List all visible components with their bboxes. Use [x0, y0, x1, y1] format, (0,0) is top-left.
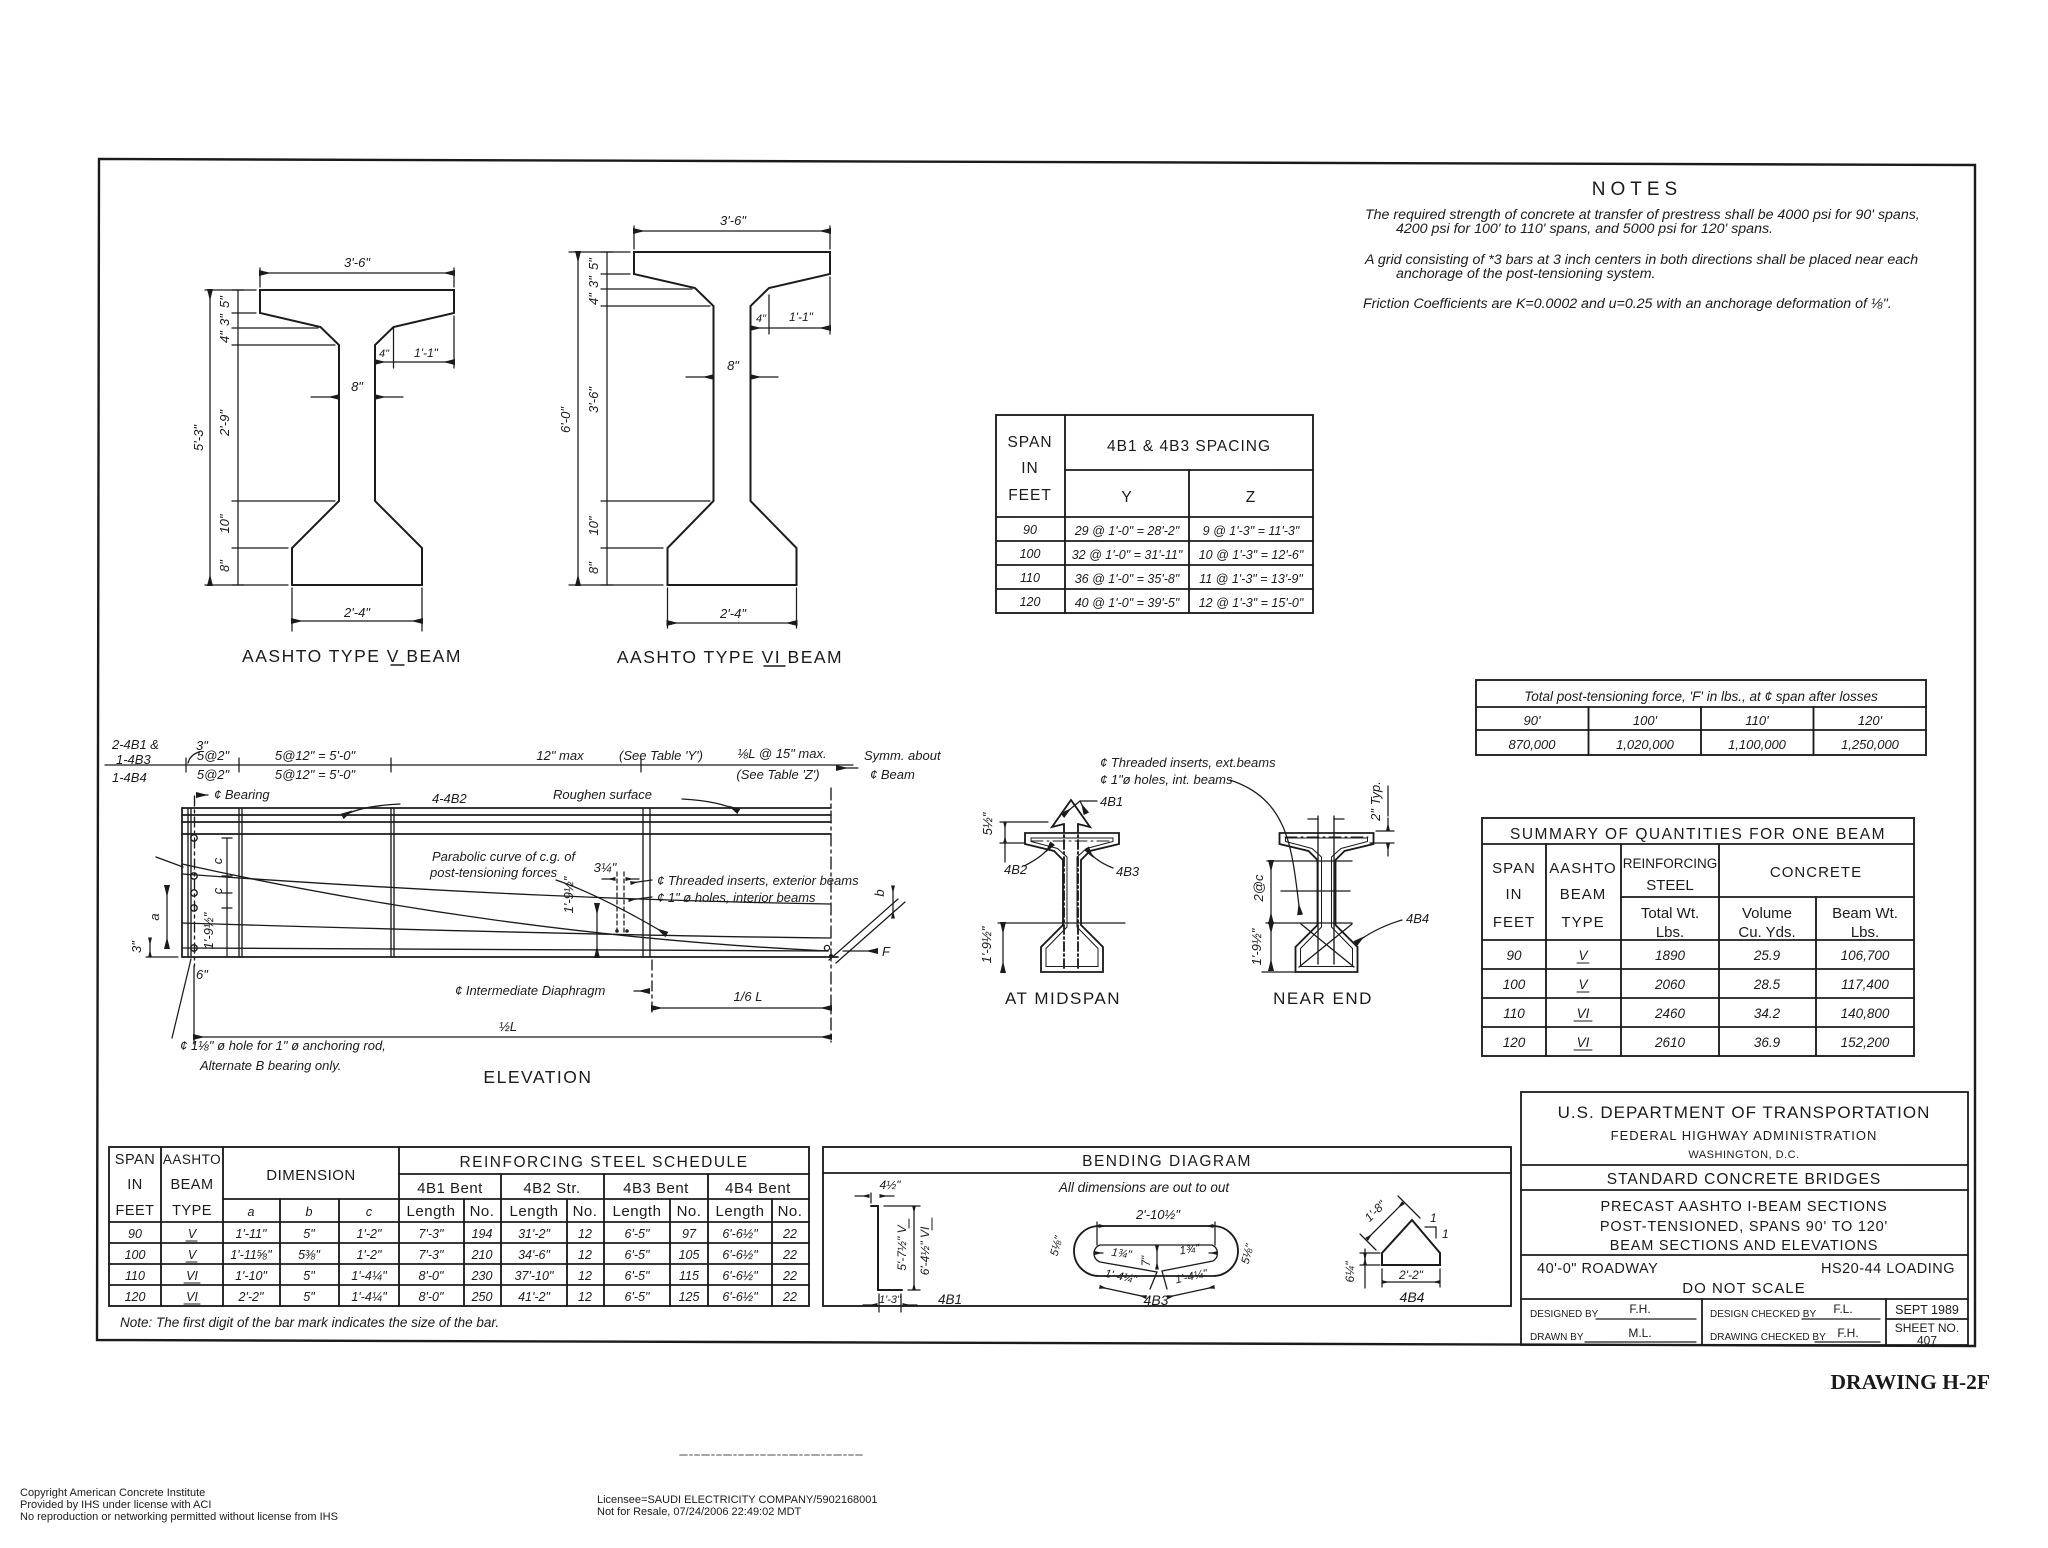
svg-text:Lbs.: Lbs. [1656, 924, 1684, 941]
svg-text:¢ 1⅛" ø hole for 1" ø anchorin: ¢ 1⅛" ø hole for 1" ø anchoring rod, [180, 1038, 386, 1053]
spacing table frame [996, 415, 1313, 613]
svg-text:152,200: 152,200 [1841, 1035, 1890, 1050]
svg-text:4-4B2: 4-4B2 [432, 791, 467, 806]
svg-text:REINFORCING: REINFORCING [1623, 856, 1718, 871]
svg-text:DIMENSION: DIMENSION [266, 1167, 356, 1184]
svg-text:Length: Length [716, 1203, 765, 1220]
svg-text:1'-10": 1'-10" [235, 1269, 267, 1283]
svg-text:4": 4" [379, 348, 390, 360]
svg-text:100: 100 [1020, 547, 1041, 561]
svg-text:DRAWING H-2F: DRAWING H-2F [1831, 1370, 1990, 1394]
svg-text:TYPE: TYPE [1561, 914, 1604, 931]
summary of quantities table frame [1482, 818, 1914, 1056]
svg-text:2460: 2460 [1654, 1006, 1686, 1021]
svg-text:4B1: 4B1 [1100, 794, 1123, 809]
svg-text:31'-2": 31'-2" [518, 1227, 550, 1241]
svg-text:1'-11": 1'-11" [236, 1227, 267, 1241]
svg-text:6'-5": 6'-5" [625, 1248, 650, 1262]
stirrup pair 5'-0 [390, 808, 392, 957]
svg-text:IN: IN [1506, 886, 1523, 903]
scan artifact dashed line [680, 1454, 862, 1456]
intermediate diaphragm arrow [634, 990, 649, 992]
svg-text:Z: Z [1246, 489, 1256, 506]
near-end level lines [1267, 860, 1352, 862]
svg-text:Length: Length [613, 1203, 662, 1220]
svg-text:DESIGN CHECKED BY: DESIGN CHECKED BY [1710, 1309, 1816, 1320]
svg-text:5'-3": 5'-3" [191, 424, 206, 451]
threaded insert detail [616, 872, 618, 934]
svg-text:12: 12 [578, 1290, 592, 1304]
anchoring rod leader [172, 959, 191, 1038]
notes heading [1592, 179, 1682, 200]
svg-text:Not for Resale, 07/24/2006 22:: Not for Resale, 07/24/2006 22:49:02 MDT [597, 1506, 802, 1518]
svg-text:3'-6": 3'-6" [720, 213, 747, 228]
svg-text:DESIGNED BY: DESIGNED BY [1530, 1309, 1599, 1320]
Type V top dimension 3'-6" [259, 268, 261, 287]
svg-text:SEPT 1989: SEPT 1989 [1895, 1303, 1959, 1317]
svg-text:1'-9½": 1'-9½" [1249, 927, 1264, 965]
svg-text:6'-6½": 6'-6½" [722, 1227, 758, 1241]
4B4 cross bars [1299, 924, 1352, 967]
svg-text:3": 3" [129, 940, 144, 953]
svg-text:1-4B3: 1-4B3 [116, 752, 151, 767]
svg-text:No.: No. [573, 1203, 598, 1220]
svg-text:SUMMARY OF QUANTITIES FOR: SUMMARY OF QUANTITIES FOR ONE BEAM [1510, 826, 1886, 843]
svg-text:IN: IN [1021, 460, 1039, 477]
svg-text:3": 3" [217, 313, 232, 326]
4B4 dimensions [1367, 1203, 1403, 1239]
svg-text:7'-3": 7'-3" [419, 1248, 444, 1262]
svg-text:4B3: 4B3 [1144, 1292, 1169, 1308]
svg-text:Alternate B bearing only.: Alternate B bearing only. [199, 1058, 341, 1073]
svg-text:2'-4": 2'-4" [343, 605, 371, 620]
svg-text:250: 250 [471, 1290, 493, 1304]
symmetry centerline about beam [830, 788, 832, 1042]
svg-text:4B3 Bent: 4B3 Bent [623, 1180, 689, 1197]
reinforcing steel schedule frame [109, 1147, 809, 1306]
svg-text:210: 210 [471, 1248, 493, 1262]
svg-text:¢ Bearing: ¢ Bearing [214, 787, 270, 802]
svg-text:1,100,000: 1,100,000 [1728, 737, 1787, 752]
3" leader [188, 752, 199, 763]
at-midspan inner bar line [1031, 838, 1113, 967]
svg-text:NOTES: NOTES [1592, 179, 1682, 200]
svg-text:5@12" = 5'-0": 5@12" = 5'-0" [275, 767, 357, 782]
bending diagram heading [1082, 1153, 1252, 1170]
svg-text:4200 psi for 100' to 110' span: 4200 psi for 100' to 110' spans, and 500… [1396, 221, 1773, 237]
svg-text:1'-9½": 1'-9½" [979, 925, 994, 963]
svg-text:2'-4": 2'-4" [719, 606, 747, 621]
svg-text:22: 22 [782, 1248, 797, 1262]
Type VI 4" / 1'-1" flange dimension [768, 295, 770, 334]
svg-text:41'-2": 41'-2" [518, 1290, 550, 1304]
svg-text:Volume: Volume [1742, 905, 1792, 922]
schedule note [120, 1315, 499, 1330]
near-end inner bar line [1286, 838, 1368, 967]
svg-text:AASHTO: AASHTO [1549, 860, 1616, 877]
svg-text:5⅛": 5⅛" [1049, 1234, 1066, 1257]
svg-text:4B1 & 4B3 SPACING: 4B1 & 4B3 SPACING [1107, 438, 1271, 455]
leaders for threaded inserts text [631, 880, 652, 883]
svg-text:5⅜": 5⅜" [298, 1248, 320, 1262]
svg-text:12: 12 [578, 1248, 592, 1262]
svg-text:No.: No. [470, 1203, 495, 1220]
svg-text:125: 125 [679, 1290, 700, 1304]
svg-text:Y: Y [1121, 489, 1132, 506]
roughen surface leader [682, 799, 738, 811]
svg-text:V: V [188, 1248, 198, 1262]
svg-text:4": 4" [217, 330, 232, 343]
svg-text:F.L.: F.L. [1833, 1302, 1852, 1316]
svg-text:1'-4¼": 1'-4¼" [1174, 1268, 1209, 1287]
svg-text:4B4 Bent: 4B4 Bent [725, 1180, 791, 1197]
svg-text:40 @ 1'-0" = 39'-5": 40 @ 1'-0" = 39'-5" [1075, 596, 1180, 610]
Type VI web 8" dimension arrows [686, 376, 714, 378]
svg-text:All dimensions are out to out: All dimensions are out to out [1058, 1180, 1231, 1195]
svg-text:1'-9½": 1'-9½" [561, 875, 576, 913]
svg-text:U.S. DEPARTMENT OF TRANSPORT: U.S. DEPARTMENT OF TRANSPORTATION [1558, 1103, 1931, 1122]
svg-text:12: 12 [578, 1227, 592, 1241]
top dimension string line [105, 764, 853, 766]
svg-text:CONCRETE: CONCRETE [1770, 864, 1862, 881]
svg-text:8": 8" [586, 561, 601, 574]
svg-text:5": 5" [586, 257, 601, 270]
near-end hole centerlines [1317, 816, 1319, 964]
svg-text:ELEVATION: ELEVATION [483, 1067, 592, 1087]
svg-text:32 @ 1'-0" = 31'-11": 32 @ 1'-0" = 31'-11" [1072, 548, 1183, 562]
svg-text:6'-5": 6'-5" [625, 1269, 650, 1283]
svg-text:4B1 Bent: 4B1 Bent [417, 1180, 483, 1197]
svg-text:1: 1 [1442, 1227, 1449, 1241]
svg-text:Length: Length [407, 1203, 456, 1220]
svg-text:IN: IN [127, 1177, 143, 1193]
svg-text:10": 10" [217, 513, 232, 533]
svg-text:AT MIDSPAN: AT MIDSPAN [1005, 989, 1121, 1008]
svg-text:6'-6½": 6'-6½" [722, 1269, 758, 1283]
svg-text:22: 22 [782, 1269, 797, 1283]
svg-text:F: F [882, 944, 891, 959]
Type V bottom dimension 2'-4" [291, 588, 293, 631]
svg-text:post-tensioning forces: post-tensioning forces [429, 865, 558, 880]
svg-text:6'-0": 6'-0" [558, 406, 573, 433]
elevation tendon lines [182, 874, 830, 904]
anchorage circles [191, 835, 197, 841]
bearing centerline [194, 796, 196, 966]
Type V dimension chain line [237, 290, 239, 585]
stirrup pair at diaphragm [642, 808, 644, 957]
4B1 label leader split arrows [1080, 800, 1097, 802]
svg-text:Symm. about: Symm. about [864, 748, 942, 763]
svg-text:c: c [366, 1205, 373, 1219]
svg-text:DRAWN BY: DRAWN BY [1530, 1332, 1584, 1343]
svg-text:1'-4¼": 1'-4¼" [351, 1290, 387, 1304]
svg-text:2'-9": 2'-9" [217, 409, 232, 437]
underlines for schedule roman numerals [186, 1240, 197, 1242]
svg-text:1'-1": 1'-1" [414, 346, 439, 360]
svg-text:90: 90 [128, 1227, 142, 1241]
symm about beam arrow [837, 767, 858, 769]
svg-text:1'-4¼": 1'-4¼" [351, 1269, 387, 1283]
svg-text:NEAR END: NEAR END [1273, 989, 1373, 1008]
svg-text:120: 120 [1020, 595, 1041, 609]
svg-text:No reproduction or networking: No reproduction or networking permitted … [20, 1511, 338, 1523]
svg-text:1¾": 1¾" [1179, 1243, 1201, 1258]
svg-text:140,800: 140,800 [1841, 1006, 1890, 1021]
footer copyright text [20, 1487, 878, 1523]
svg-text:7'-3": 7'-3" [419, 1227, 444, 1241]
svg-text:9 @ 1'-3" = 11'-3": 9 @ 1'-3" = 11'-3" [1203, 524, 1300, 538]
svg-text:1/6 L: 1/6 L [734, 989, 763, 1004]
svg-text:90': 90' [1524, 713, 1541, 728]
svg-text:4B4: 4B4 [1400, 1289, 1425, 1305]
svg-text:10 @ 1'-3" = 12'-6": 10 @ 1'-3" = 12'-6" [1199, 548, 1304, 562]
2" typ dimension [1387, 818, 1389, 830]
svg-text:No.: No. [778, 1203, 803, 1220]
svg-text:¢ Threaded inserts, exterior b: ¢ Threaded inserts, exterior beams [657, 873, 859, 888]
svg-text:6¼": 6¼" [1343, 1261, 1357, 1283]
svg-text:115: 115 [679, 1269, 699, 1283]
svg-text:¢ Intermediate Diaphragm: ¢ Intermediate Diaphragm [455, 983, 605, 998]
svg-text:1: 1 [1430, 1211, 1437, 1225]
svg-text:4½": 4½" [880, 1178, 902, 1192]
svg-text:FEDERAL HIGHWAY ADMINISTRATI: FEDERAL HIGHWAY ADMINISTRATION [1611, 1128, 1878, 1143]
svg-text:100: 100 [1503, 977, 1526, 992]
elevation title [483, 1067, 592, 1087]
svg-text:SPAN: SPAN [1007, 434, 1052, 451]
svg-text:97: 97 [682, 1227, 697, 1241]
signature lines [1596, 1318, 1696, 1320]
svg-text:2'-2": 2'-2" [1398, 1268, 1424, 1282]
svg-text:VI: VI [186, 1269, 198, 1283]
4B3 inner bar loop [1094, 1245, 1217, 1272]
bar 4B3 bent shape outer capsule [1074, 1226, 1238, 1276]
elevation beam outline [182, 807, 831, 809]
parabolic curve of c.g. [182, 864, 828, 951]
svg-text:FEET: FEET [1008, 487, 1052, 504]
svg-text:No.: No. [677, 1203, 702, 1220]
svg-text:PRECAST AASHTO I-BEAM SECTI: PRECAST AASHTO I-BEAM SECTIONS [1601, 1199, 1888, 1215]
c spacing dimension chain [226, 838, 228, 957]
svg-text:FEET: FEET [1493, 914, 1535, 931]
svg-text:5": 5" [303, 1227, 315, 1241]
svg-text:Provided by IHS under license: Provided by IHS under license with ACI [20, 1499, 211, 1511]
near-end section outline [1280, 833, 1374, 972]
svg-text:6'-5": 6'-5" [625, 1290, 650, 1304]
svg-text:Copyright American Concrete In: Copyright American Concrete Institute [20, 1487, 205, 1499]
svg-text:5@12" = 5'-0": 5@12" = 5'-0" [275, 748, 357, 763]
midspan 5 1/2 dim [1000, 821, 1048, 823]
Type V overall height dimension 5'-3" [205, 289, 256, 291]
svg-text:2060: 2060 [1654, 977, 1686, 992]
svg-text:Total Wt.: Total Wt. [1641, 905, 1699, 922]
svg-text:34'-6": 34'-6" [518, 1248, 550, 1262]
svg-text:29 @ 1'-0" = 28'-2": 29 @ 1'-0" = 28'-2" [1074, 524, 1180, 538]
svg-text:VI: VI [186, 1290, 198, 1304]
svg-text:HS20-44 LOADING: HS20-44 LOADING [1821, 1261, 1955, 1277]
svg-text:Roughen surface: Roughen surface [553, 787, 652, 802]
svg-text:8": 8" [727, 358, 740, 373]
svg-text:SPAN: SPAN [1492, 860, 1536, 877]
bending diagram frame [823, 1147, 1511, 1306]
svg-text:BEAM: BEAM [170, 1177, 213, 1193]
title block frame [1521, 1092, 1968, 1345]
svg-text:VI: VI [1577, 1035, 1590, 1050]
svg-text:106,700: 106,700 [1841, 948, 1890, 963]
svg-text:870,000: 870,000 [1509, 737, 1557, 752]
svg-text:120: 120 [1503, 1035, 1526, 1050]
svg-text:1,020,000: 1,020,000 [1616, 737, 1675, 752]
svg-text:12 @ 1'-3" = 15'-0": 12 @ 1'-3" = 15'-0" [1199, 596, 1304, 610]
underlines for 4B1 roman numerals [908, 1219, 910, 1228]
svg-text:¢ Beam: ¢ Beam [870, 767, 915, 782]
svg-text:F.H.: F.H. [1837, 1326, 1858, 1340]
svg-text:AASHTO TYPE V BEAM: AASHTO TYPE V BEAM [242, 646, 462, 666]
4B2 label leader [1024, 844, 1052, 866]
parabolic curve leader [556, 880, 666, 934]
svg-text:90: 90 [1506, 948, 1522, 963]
sheet border frame [97, 159, 1975, 1346]
svg-text:2'-10½": 2'-10½" [1135, 1207, 1181, 1222]
1/6 L dimension [652, 1007, 831, 1009]
svg-text:1890: 1890 [1655, 948, 1686, 963]
svg-text:VI: VI [1577, 1006, 1590, 1021]
svg-text:194: 194 [472, 1227, 493, 1241]
svg-text:2" Typ.: 2" Typ. [1368, 781, 1383, 822]
svg-text:V: V [1578, 977, 1589, 992]
svg-text:STANDARD CONCRETE BRIDGES: STANDARD CONCRETE BRIDGES [1607, 1171, 1881, 1188]
svg-text:⅛L @ 15" max.: ⅛L @ 15" max. [737, 746, 826, 761]
svg-text:5@2": 5@2" [197, 767, 231, 782]
svg-text:28.5: 28.5 [1753, 977, 1781, 992]
svg-text:1'-9½": 1'-9½" [201, 911, 216, 949]
svg-text:5'-7½" V: 5'-7½" V [895, 1224, 909, 1270]
svg-text:BEAM: BEAM [1560, 886, 1607, 903]
svg-text:b: b [872, 889, 887, 896]
svg-text:6'-6½": 6'-6½" [722, 1248, 758, 1262]
svg-text:1'-2": 1'-2" [357, 1227, 382, 1241]
svg-text:Length: Length [510, 1203, 559, 1220]
Type VI bottom dimension 2'-4" [667, 588, 669, 628]
svg-text:Note: The first digit of the: Note: The first digit of the bar mark in… [120, 1315, 499, 1330]
svg-text:110: 110 [1503, 1006, 1525, 1021]
intermediate diaphragm centerline [651, 960, 653, 1014]
midspan 1'-9 1/2 level line [998, 922, 1125, 924]
svg-text:5@2": 5@2" [197, 748, 231, 763]
4B3 dimensions [1096, 1222, 1098, 1245]
svg-text:STEEL: STEEL [1646, 877, 1694, 894]
svg-text:Licensee=SAUDI ELECTRICITY COM: Licensee=SAUDI ELECTRICITY COMPANY/59021… [597, 1494, 878, 1506]
svg-text:Lbs.: Lbs. [1851, 924, 1879, 941]
svg-text:120: 120 [125, 1290, 146, 1304]
svg-text:5": 5" [303, 1269, 315, 1283]
svg-text:1'-2": 1'-2" [357, 1248, 382, 1262]
svg-text:8'-0": 8'-0" [419, 1290, 444, 1304]
3 inch end dimension [149, 938, 151, 957]
post-tensioning force table frame [1476, 680, 1926, 755]
svg-text:c: c [210, 857, 225, 864]
svg-text:90: 90 [1023, 523, 1037, 537]
underlines for roman numerals [1577, 962, 1589, 964]
svg-text:11 @ 1'-3" = 13'-9": 11 @ 1'-3" = 13'-9" [1199, 572, 1303, 586]
svg-text:¢ 1"ø holes, int. beams: ¢ 1"ø holes, int. beams [1100, 772, 1233, 787]
F force arrow and end diagonals [829, 899, 898, 960]
svg-text:22: 22 [782, 1227, 797, 1241]
4B1 dimensions [870, 1193, 872, 1203]
bar 4B1 bent shape [871, 1205, 878, 1207]
near end title [1273, 989, 1373, 1008]
svg-text:110': 110' [1745, 713, 1769, 728]
near-end 1'-9 1/2 dimension [1270, 923, 1272, 970]
svg-text:1,250,000: 1,250,000 [1841, 737, 1900, 752]
svg-text:BEAM SECTIONS AND ELEVATION: BEAM SECTIONS AND ELEVATIONS [1610, 1238, 1878, 1254]
svg-text:TYPE: TYPE [172, 1203, 212, 1219]
svg-text:1'-11⅝": 1'-11⅝" [230, 1248, 272, 1262]
bar 4B4 bent shape [1382, 1220, 1440, 1265]
svg-text:DRAWING CHECKED BY: DRAWING CHECKED BY [1710, 1332, 1826, 1343]
4B1 bar arrow in midspan section [1063, 824, 1065, 968]
Type V 4" / 1'-1" flange dimension [393, 327, 395, 368]
svg-text:1'-3": 1'-3" [879, 1294, 902, 1306]
svg-text:22: 22 [782, 1290, 797, 1304]
4-4B2 leader [343, 804, 400, 816]
at-midspan section outline [1025, 833, 1119, 972]
svg-text:3¼": 3¼" [594, 860, 618, 875]
svg-text:6": 6" [196, 967, 209, 982]
svg-text:2-4B1 &: 2-4B1 & [111, 737, 159, 752]
svg-text:117,400: 117,400 [1841, 977, 1889, 992]
Type V title [242, 646, 462, 666]
svg-text:6'-6½": 6'-6½" [722, 1290, 758, 1304]
svg-text:Friction Coefficients are K=0.: Friction Coefficients are K=0.0002 and u… [1363, 296, 1892, 312]
svg-text:8'-0": 8'-0" [419, 1269, 444, 1283]
svg-text:100': 100' [1633, 713, 1658, 728]
AASHTO Type VI beam outline [634, 252, 830, 585]
Type VI dimension chain line [606, 252, 608, 585]
svg-text:F.H.: F.H. [1629, 1302, 1650, 1316]
Type VI top dimension 3'-6" [633, 226, 635, 249]
svg-text:DO NOT SCALE: DO NOT SCALE [1682, 1280, 1805, 1297]
Type V web 8" dimension arrows [311, 396, 339, 398]
svg-text:4": 4" [756, 313, 767, 325]
svg-text:FEET: FEET [115, 1203, 154, 1219]
Type VI overall height dimension 6'-0" [569, 251, 630, 253]
svg-text:3": 3" [586, 275, 601, 288]
svg-text:6'-4½" VI: 6'-4½" VI [918, 1226, 932, 1275]
svg-text:AASHTO: AASHTO [163, 1152, 221, 1167]
long leader for threaded inserts [1230, 780, 1300, 914]
svg-text:Total post-tensioning force, ': Total post-tensioning force, 'F' in lbs.… [1524, 689, 1878, 704]
4B4 leader [1356, 920, 1402, 943]
svg-text:POST-TENSIONED, SPANS 90' TO: POST-TENSIONED, SPANS 90' TO 120' [1600, 1219, 1888, 1235]
svg-text:(See Table 'Z'): (See Table 'Z') [736, 767, 819, 782]
svg-text:4B2 Str.: 4B2 Str. [523, 1180, 580, 1197]
svg-text:1-4B4: 1-4B4 [112, 770, 147, 785]
svg-text:AASHTO TYPE VI BEAM: AASHTO TYPE VI BEAM [617, 647, 843, 667]
svg-text:100: 100 [125, 1248, 146, 1262]
svg-text:5½": 5½" [980, 811, 995, 835]
svg-text:anchorage of the post-tensioni: anchorage of the post-tensioning system. [1396, 266, 1655, 282]
svg-text:SPAN: SPAN [115, 1152, 155, 1168]
svg-text:407: 407 [1917, 1334, 1937, 1348]
svg-text:3'-6": 3'-6" [344, 255, 371, 270]
at midspan title [1005, 989, 1121, 1008]
4B3 label leader [1087, 849, 1113, 868]
svg-text:1'-1": 1'-1" [789, 310, 814, 324]
svg-text:1'-4¼": 1'-4¼" [1103, 1268, 1138, 1287]
svg-text:25.9: 25.9 [1753, 948, 1781, 963]
svg-text:2610: 2610 [1654, 1035, 1686, 1050]
svg-text:40'-0" ROADWAY: 40'-0" ROADWAY [1537, 1261, 1658, 1277]
